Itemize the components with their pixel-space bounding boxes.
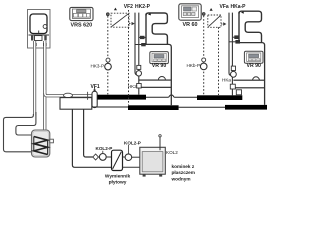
svg-text:kominek z: kominek z [172, 164, 195, 169]
pump KOL2-P right [125, 145, 132, 161]
coil HK2 serpentine [146, 13, 171, 105]
node HKb marker [210, 8, 213, 11]
wire boiler return pipe to tank lower port (outlined) [4, 41, 36, 152]
controller VRS 620 [70, 7, 93, 20]
wire HKa pump pipe [231, 13, 233, 96]
valve HK2 square [137, 84, 142, 89]
wire HKa coil stub upper [232, 35, 239, 39]
wire manifold drop to upper loop line [84, 109, 93, 157]
controller VR 90 left [150, 52, 169, 64]
node flow header bar 1 [97, 95, 146, 100]
wire HK2 horizontal A with pump bump [139, 77, 172, 81]
tank side nub [50, 139, 54, 143]
svg-text:HK3-P: HK3-P [91, 63, 105, 68]
tank DHW cylinder [32, 130, 50, 157]
wire HK2 flow pipe [135, 13, 138, 75]
manifold (hydraulic separator) [60, 98, 92, 110]
wire HK2 coil stub upper [139, 36, 146, 39]
wire thin flow link with bridge [146, 95, 197, 97]
valve HKa square [230, 84, 235, 89]
pump fitting oval on boiler flow pipe [64, 93, 73, 97]
svg-text:VRS 620: VRS 620 [71, 22, 93, 28]
pump HKa circle [231, 71, 237, 77]
svg-text:HKb-P: HKb-P [187, 63, 201, 68]
radiator HK3 dashed box [111, 13, 135, 27]
wire pump to heat exchanger [106, 156, 111, 158]
valve check diamond [93, 154, 99, 160]
svg-text:HK2-P: HK2-P [135, 4, 151, 10]
wire dashed HK3 return [128, 10, 130, 105]
node HK3 sensor circle [106, 13, 109, 16]
svg-text:KOL2: KOL2 [166, 150, 178, 155]
wire dashed HK3 supply [107, 16, 109, 94]
svg-text:płytowy: płytowy [109, 179, 127, 185]
wire manifold to bar 2 [92, 106, 128, 108]
wire dashed HKb return [218, 27, 220, 95]
wire HKa horizontal A with pump bump [233, 77, 264, 80]
svg-text:HK2: HK2 [128, 84, 137, 89]
wire pump 2 to fireplace [132, 156, 140, 158]
svg-text:płaszczem: płaszczem [172, 170, 195, 175]
valve HK2 mixer motor [137, 65, 141, 69]
wire dashed HKb supply [203, 16, 205, 95]
boiler burner shelf [29, 35, 50, 46]
svg-text:VFa: VFa [220, 4, 229, 10]
boiler B1 body [30, 14, 47, 34]
wire HKa flow pipe [229, 13, 232, 76]
svg-text:VR 60: VR 60 [183, 22, 198, 28]
controller VR 60 [179, 4, 201, 20]
svg-text:wodnym: wodnym [171, 176, 191, 181]
controller VR 90 right [244, 51, 263, 63]
pump HKb-P [200, 58, 207, 70]
wire HKa coil stub lower [229, 40, 240, 44]
valve HKa mixer motor [231, 66, 235, 70]
wire manifold drop to lower loop line [72, 109, 111, 167]
svg-text:VR 90: VR 90 [152, 63, 167, 69]
svg-text:VF2: VF2 [124, 4, 133, 10]
sensor KOL2 probe [159, 135, 161, 151]
tank heating coil zigzag [34, 137, 48, 155]
svg-text:VF1: VF1 [91, 84, 100, 90]
svg-text:VR 90: VR 90 [246, 63, 261, 69]
node flow header bar 3 [197, 95, 242, 100]
wire HX to pump 2 [123, 156, 126, 158]
boiler sight glass circle [43, 25, 47, 29]
heat exchanger plate [112, 150, 123, 170]
fireplace with water jacket [140, 147, 166, 176]
pump HK3-P [105, 58, 112, 70]
node HKb sensor circle [202, 13, 205, 16]
svg-text:KOL2-P: KOL2-P [124, 141, 141, 146]
fitting on bar 3 [236, 90, 241, 95]
pump KOL2-P left [98, 151, 106, 161]
pump HK2 circle [136, 71, 141, 76]
wire boiler flow pipe to VF1 (outlined) [45, 41, 93, 130]
wire HKa horizontal B [235, 87, 264, 89]
radiator HKb dashed box [208, 15, 227, 27]
svg-text:KOL2-P: KOL2-P [96, 146, 113, 151]
wire bar 2 to bar 4 [179, 106, 225, 108]
wire HK2 pump pipe [138, 13, 140, 95]
node return header bar 4 [225, 105, 267, 110]
svg-text:HKa: HKa [222, 77, 231, 82]
boiler B1 cabinet [28, 10, 51, 49]
svg-text:HKa-P: HKa-P [231, 4, 247, 10]
node HK3 marker [114, 8, 117, 11]
wire HX lower to fireplace [123, 166, 140, 168]
svg-text:Wymiennik: Wymiennik [105, 174, 131, 180]
sensor VF1 capsule [88, 87, 98, 108]
wire HK2 horizontal B [141, 86, 171, 88]
coil HKa serpentine [239, 11, 265, 105]
node return header bar 2 [128, 105, 179, 110]
wire HK2 coil stub lower [135, 43, 146, 46]
